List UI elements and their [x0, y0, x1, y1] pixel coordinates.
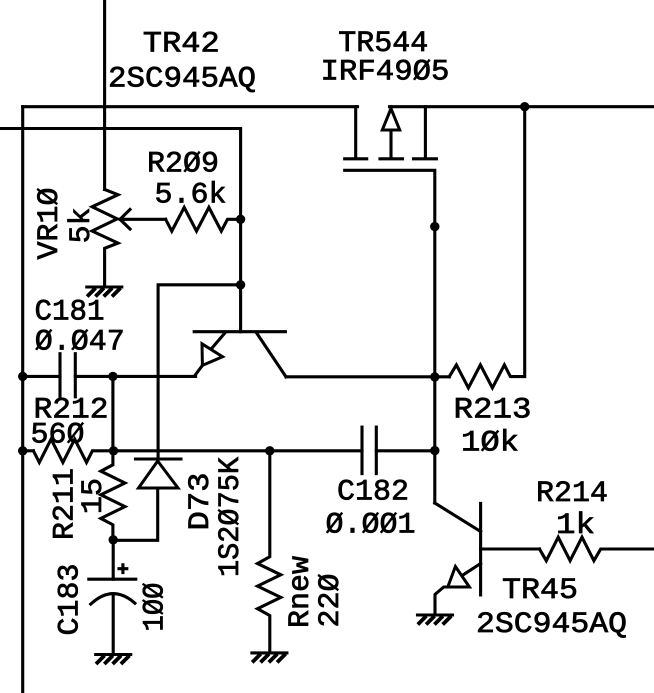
resistor R211	[101, 376, 125, 539]
svg-text:56Ø: 56Ø	[31, 419, 85, 453]
svg-text:1Øk: 1Øk	[461, 427, 519, 461]
svg-text:5k: 5k	[65, 207, 99, 243]
node: R211 top junction	[108, 372, 117, 381]
resistor R209	[166, 207, 241, 231]
wire: C182 to gate node	[376, 449, 435, 452]
svg-text:5.6k: 5.6k	[155, 179, 227, 213]
potentiometer VR10	[92, 190, 166, 288]
svg-text:C182: C182	[337, 476, 409, 510]
wire: top stub to VR10	[103, 0, 106, 190]
svg-text:15: 15	[77, 478, 111, 514]
svg-text:IRF49Ø5: IRF49Ø5	[321, 56, 450, 90]
node: gate / C182 junction	[430, 446, 439, 455]
diode D73	[113, 459, 181, 540]
svg-text:22Ø: 22Ø	[314, 573, 348, 627]
wire: R212 row wire	[23, 449, 34, 452]
svg-text:1S2Ø75K: 1S2Ø75K	[214, 457, 248, 577]
svg-text:Rnew: Rnew	[284, 556, 318, 628]
resistor R213	[449, 107, 524, 388]
svg-text:2SC945AQ: 2SC945AQ	[108, 63, 256, 97]
wire: left vertical rail	[21, 107, 24, 693]
wire: collector wire right	[286, 375, 449, 378]
node: collector/R213/gate junction	[430, 372, 439, 381]
wire: second rail to TR42 collector	[0, 129, 241, 332]
ground (below C183)	[96, 655, 131, 665]
svg-text:C183: C183	[54, 563, 88, 635]
node: R211 / R212 junction	[109, 446, 118, 455]
svg-text:TR45: TR45	[502, 574, 578, 608]
resistor R214	[540, 537, 654, 561]
MOSFET TR544	[345, 107, 437, 503]
node: left rail / R212 wire	[18, 446, 27, 455]
svg-text:Ø.Ø47: Ø.Ø47	[35, 326, 125, 360]
svg-text:R214: R214	[536, 477, 608, 511]
transistor TR42	[194, 332, 286, 377]
capacitor C182	[362, 427, 376, 474]
node: Rnew junction	[265, 446, 274, 455]
svg-text:1ØØ: 1ØØ	[139, 583, 173, 632]
svg-text:VR1Ø: VR1Ø	[33, 187, 67, 259]
transistor TR45	[435, 503, 540, 615]
node: collector branch junction	[236, 280, 245, 289]
node: R211/D73/C183 junction	[109, 535, 118, 544]
resistor Rnew	[258, 451, 281, 653]
capacitor C183	[89, 540, 136, 655]
node: top rail junction	[520, 102, 529, 111]
svg-text:D73: D73	[184, 473, 218, 531]
node: dot on gate line	[430, 222, 439, 231]
svg-text:TR42: TR42	[143, 27, 220, 61]
capacitor C181	[60, 354, 75, 397]
ground (below TR45 emitter)	[418, 615, 453, 625]
svg-text:R2Ø9: R2Ø9	[147, 147, 219, 181]
node: left rail / emitter wire	[18, 372, 27, 381]
resistor R212	[33, 439, 362, 462]
ground (below Rnew)	[252, 653, 287, 663]
svg-text:C181: C181	[35, 296, 105, 330]
wire: branch to D73	[158, 285, 241, 459]
wire: top rail left segment	[23, 105, 358, 108]
svg-text:2SC945AQ: 2SC945AQ	[476, 608, 627, 642]
node: R209 right junction	[236, 215, 245, 224]
wire: top rail right segment	[390, 105, 654, 108]
ground (below VR10)	[87, 287, 122, 297]
wire: emitter wire left	[23, 375, 60, 378]
svg-text:Ø.ØØ1: Ø.ØØ1	[326, 509, 416, 543]
svg-text:1k: 1k	[556, 509, 595, 543]
svg-text:R213: R213	[454, 394, 532, 428]
